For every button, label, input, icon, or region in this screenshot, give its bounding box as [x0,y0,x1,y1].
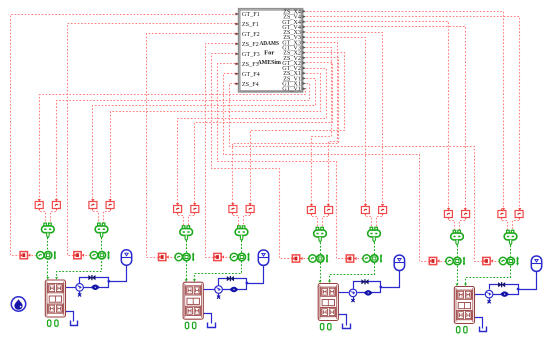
svg-text:AMESim: AMESim [257,59,281,66]
svg-text:ZS_F4: ZS_F4 [242,81,259,88]
svg-text:ZS_F3: ZS_F3 [242,61,259,68]
svg-text:ADAMS: ADAMS [259,40,279,47]
svg-text:GT_F4: GT_F4 [242,71,260,78]
svg-text:GT_F3: GT_F3 [242,51,260,58]
svg-text:For: For [264,49,274,56]
svg-text:GT_V1: GT_V1 [282,87,301,93]
svg-text:ZS_F2: ZS_F2 [242,41,259,48]
svg-text:GT_F1: GT_F1 [242,11,260,18]
svg-text:ZS_F1: ZS_F1 [242,21,259,28]
svg-text:GT_F2: GT_F2 [242,31,260,38]
